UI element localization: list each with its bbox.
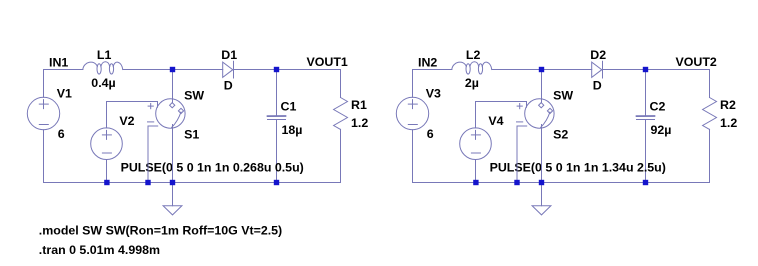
wire: output junction to top-right corner	[646, 69, 710, 71]
svg-text:IN2: IN2	[418, 56, 437, 70]
wire: source top to inductor	[413, 69, 452, 71]
wire: V4 plus up to control corner	[475, 102, 477, 128]
resistor R1	[334, 98, 348, 130]
svg-text:92µ: 92µ	[651, 123, 672, 137]
junction capacitor bottom	[643, 180, 648, 185]
wire: junction to diode anode	[542, 69, 592, 71]
junction switch/ground	[539, 180, 544, 185]
wire: source top to inductor	[44, 69, 83, 71]
wire: V2 minus down to bottom rail	[106, 160, 108, 183]
wire: top rail down to V3 plus	[412, 70, 414, 98]
voltage source V3	[396, 97, 428, 129]
svg-text:D: D	[224, 79, 233, 93]
ground	[163, 206, 182, 215]
wire: output junction down to capacitor	[645, 70, 647, 117]
wire: V2 plus up to control corner	[106, 102, 108, 128]
ground	[532, 206, 551, 215]
wire: switch minus pin down to bottom rail	[516, 126, 518, 183]
wire: inductor to switch-node junction	[123, 69, 173, 71]
junction pulse-source bottom	[104, 180, 109, 185]
svg-text:VOUT2: VOUT2	[676, 55, 717, 69]
svg-text:V2: V2	[119, 114, 134, 128]
svg-text:D2: D2	[590, 48, 606, 62]
wire: resistor to bottom-right corner	[709, 129, 711, 182]
wire: bottom rail	[413, 182, 710, 184]
capacitor C1	[268, 116, 286, 120]
svg-text:6: 6	[427, 127, 434, 141]
wire: top-right corner down to resistor	[340, 70, 342, 98]
wire: inductor to switch-node junction	[492, 69, 542, 71]
svg-text:S2: S2	[553, 128, 568, 142]
svg-text:C2: C2	[650, 99, 666, 113]
svg-text:2µ: 2µ	[465, 76, 479, 90]
wire: output junction down to capacitor	[276, 70, 278, 117]
svg-text:L2: L2	[466, 48, 481, 62]
voltage source V4 (pulse)	[460, 128, 492, 160]
wire: switch plus pin drop	[526, 102, 528, 108]
wire: top-right corner down to resistor	[709, 70, 711, 98]
svg-text:S1: S1	[184, 128, 199, 142]
wire: switch plus pin drop	[157, 102, 159, 108]
wire: V4 minus down to bottom rail	[475, 160, 477, 183]
svg-text:PULSE(0 5 0 1n 1n 1.34u 2.5u): PULSE(0 5 0 1n 1n 1.34u 2.5u)	[490, 160, 666, 174]
svg-text:6: 6	[58, 127, 65, 141]
diode D2	[592, 61, 603, 78]
svg-text:IN1: IN1	[49, 56, 68, 70]
wire: top rail down to V1 plus	[43, 70, 45, 98]
svg-text:V1: V1	[57, 87, 72, 101]
svg-text:D: D	[593, 79, 602, 93]
diode D1	[223, 61, 234, 78]
junction control minus	[145, 180, 150, 185]
wire: switch minus pin down to bottom rail	[147, 126, 149, 183]
voltage source V1	[27, 97, 59, 129]
inductor L1	[83, 62, 123, 74]
svg-text:0.4µ: 0.4µ	[91, 76, 115, 90]
voltage source V2 (pulse)	[91, 128, 123, 160]
junction switch-node top	[170, 67, 175, 72]
wire: V3 minus down to bottom rail	[412, 130, 414, 183]
wire: switch bottom pin down through rail to ground	[172, 125, 174, 206]
wire: diode cathode to output junction	[603, 69, 646, 71]
svg-text:SW: SW	[553, 89, 573, 103]
capacitor C2	[637, 116, 655, 120]
wire: switch-node junction down to switch top pin	[541, 70, 543, 103]
svg-text:1.2: 1.2	[720, 116, 737, 130]
wire: junction to diode anode	[173, 69, 223, 71]
resistor R2	[703, 98, 717, 130]
svg-text:C1: C1	[281, 99, 297, 113]
junction switch-node top	[539, 67, 544, 72]
svg-text:SW: SW	[184, 89, 204, 103]
svg-text:18µ: 18µ	[282, 123, 303, 137]
svg-text:L1: L1	[97, 48, 112, 62]
wire: switch-node junction down to switch top pin	[172, 70, 174, 103]
svg-text:.tran 0 5.01m 4.998m: .tran 0 5.01m 4.998m	[39, 243, 160, 257]
svg-text:V4: V4	[488, 114, 503, 128]
wire: capacitor down to bottom rail	[276, 120, 278, 183]
junction pulse-source bottom	[473, 180, 478, 185]
switch S1 (SW)	[148, 99, 186, 128]
junction output top	[643, 67, 648, 72]
svg-text:VOUT1: VOUT1	[307, 55, 348, 69]
wire: switch bottom pin down through rail to ground	[541, 125, 543, 206]
svg-text:R2: R2	[720, 98, 736, 112]
svg-text:1.2: 1.2	[351, 116, 368, 130]
wire: switch minus pin stub	[517, 125, 527, 127]
wire: V1 minus down to bottom rail	[43, 130, 45, 183]
wire: resistor to bottom-right corner	[340, 129, 342, 182]
wire: output junction to top-right corner	[277, 69, 341, 71]
junction output top	[274, 67, 279, 72]
svg-text:.model SW SW(Ron=1m Roff=10G V: .model SW SW(Ron=1m Roff=10G Vt=2.5)	[39, 223, 282, 237]
wire: bottom rail	[44, 182, 341, 184]
svg-text:R1: R1	[351, 98, 367, 112]
wire: control corner right to switch plus pin	[107, 101, 158, 103]
junction capacitor bottom	[274, 180, 279, 185]
svg-text:D1: D1	[221, 48, 237, 62]
inductor L2	[452, 62, 492, 74]
wire: capacitor down to bottom rail	[645, 120, 647, 183]
junction control minus	[514, 180, 519, 185]
wire: control corner right to switch plus pin	[476, 101, 527, 103]
wire: switch minus pin stub	[148, 125, 158, 127]
switch S2 (SW)	[517, 99, 555, 128]
svg-text:V3: V3	[426, 87, 441, 101]
junction switch/ground	[170, 180, 175, 185]
wire: diode cathode to output junction	[234, 69, 277, 71]
